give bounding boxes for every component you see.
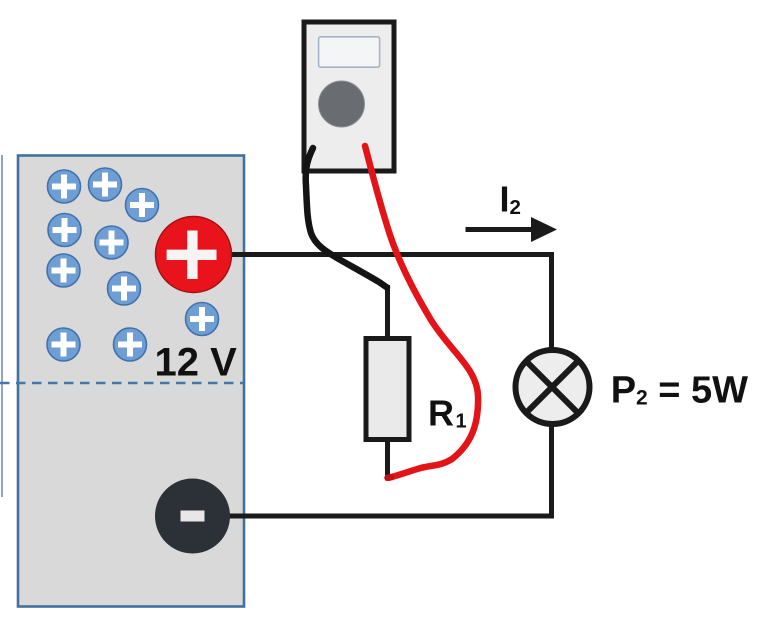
svg-text:R1: R1 <box>428 392 467 433</box>
wire: resistor bottom stub <box>385 440 390 481</box>
negative terminal of battery <box>155 479 230 554</box>
lamp P2 (circle with X) <box>516 350 590 424</box>
plus signs on charge carriers <box>52 173 215 357</box>
red test lead probe tip <box>388 474 392 481</box>
battery body B1 <box>18 156 244 607</box>
svg-text:12 V: 12 V <box>155 341 238 385</box>
current arrow I2 <box>466 217 558 242</box>
wire: battery + terminal to top-right corner <box>229 252 552 257</box>
positive terminal of battery <box>156 217 232 293</box>
wire: bottom-right corner to battery - terminal <box>228 514 554 519</box>
multimeter black test lead <box>306 148 387 288</box>
multimeter red test lead <box>365 146 478 478</box>
wire: resistor top lead <box>385 285 390 338</box>
multimeter body <box>304 22 394 171</box>
svg-text:I2: I2 <box>500 179 521 220</box>
battery electrolyte separator dashed line <box>0 382 243 384</box>
positive charge carriers (blue + ions) <box>47 168 219 361</box>
wire: lamp bottom down to bottom-right corner <box>549 424 554 516</box>
battery crop line (left edge remnant) <box>1 155 3 497</box>
multimeter knob <box>319 81 365 127</box>
wire: top-right corner down to lamp top <box>549 252 554 350</box>
svg-text:P2 = 5W: P2 = 5W <box>611 369 748 411</box>
resistor R1 <box>366 339 409 440</box>
multimeter display <box>319 37 380 67</box>
